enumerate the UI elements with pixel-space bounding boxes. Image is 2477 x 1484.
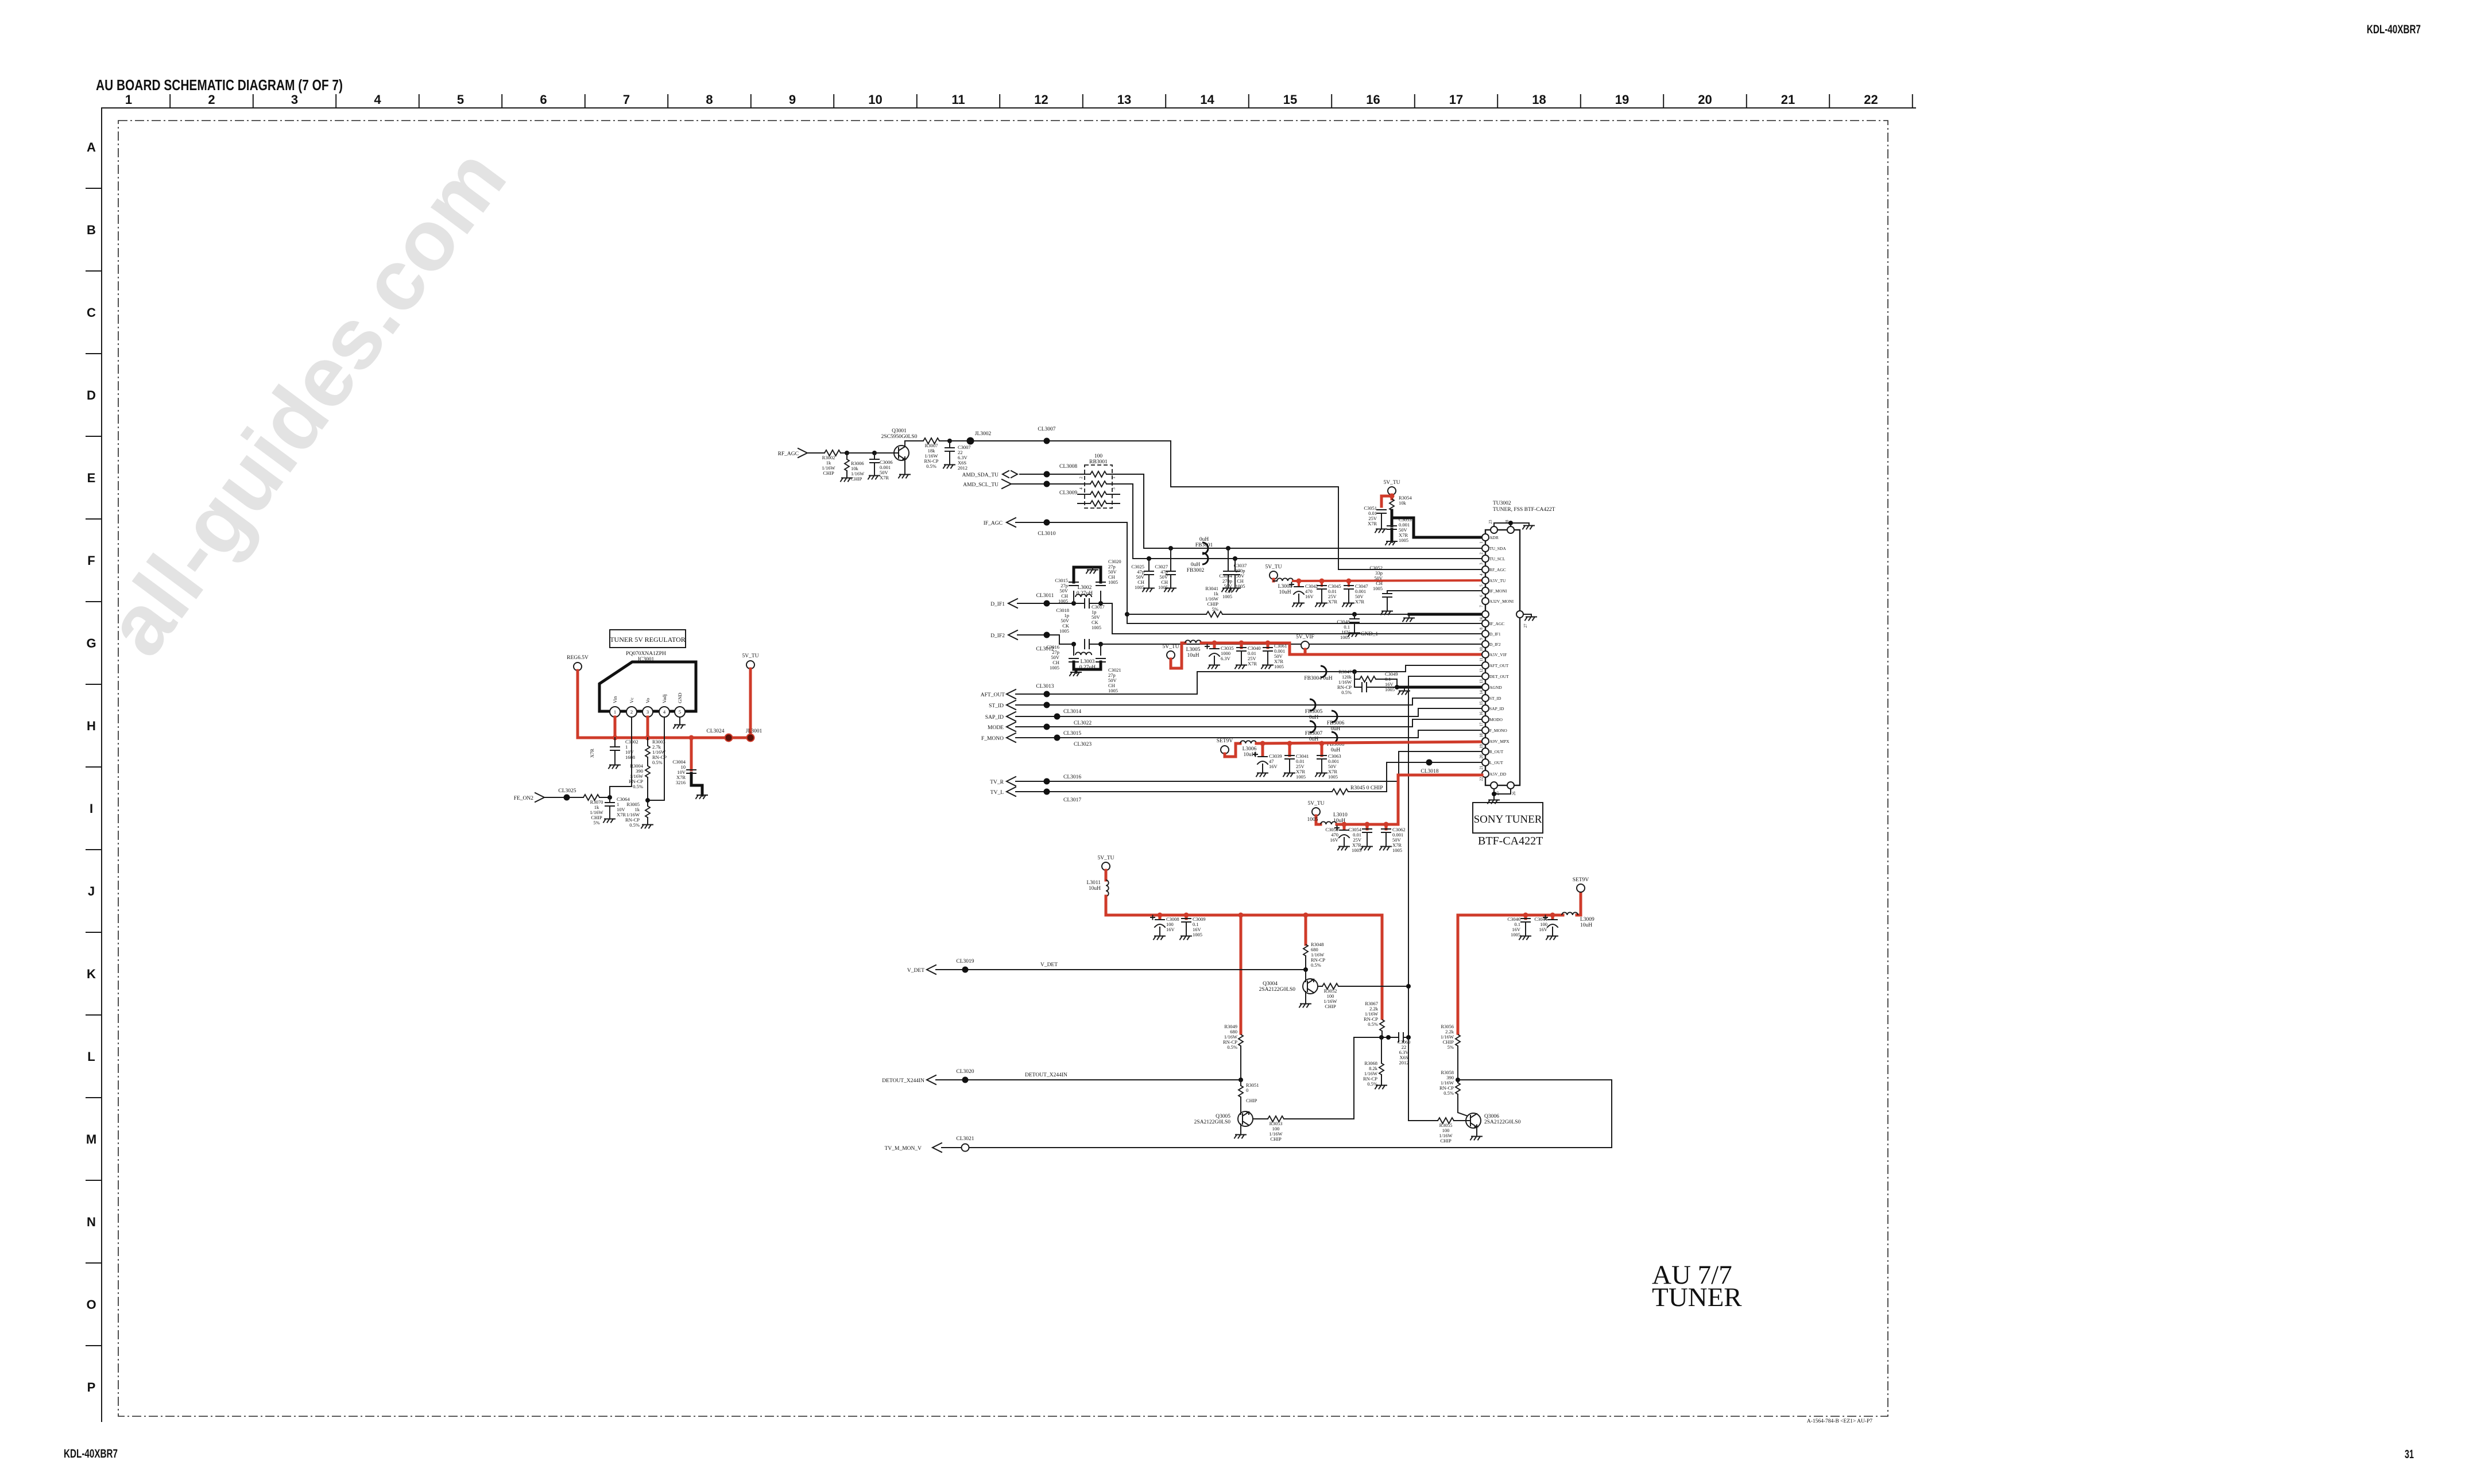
svg-text:3: 3 bbox=[1479, 563, 1484, 565]
svg-text:RF_AGC: RF_AGC bbox=[778, 451, 799, 457]
svg-text:CL3011: CL3011 bbox=[1036, 593, 1054, 599]
svg-text:0.5%: 0.5% bbox=[1368, 1021, 1378, 1027]
connector-link CL3014 bbox=[1044, 702, 1082, 715]
wire AFT_OUT jog to pin 12 bbox=[1197, 665, 1485, 694]
node D_IF2 left bbox=[1071, 642, 1076, 646]
svg-text:27: 27 bbox=[1523, 623, 1528, 628]
svg-text:11: 11 bbox=[1479, 657, 1484, 661]
resistor R3007 bbox=[923, 438, 950, 469]
node R3041 tap bbox=[1125, 612, 1129, 617]
svg-text:N: N bbox=[87, 1215, 96, 1229]
svg-text:TU_SCL: TU_SCL bbox=[1489, 556, 1505, 561]
connector-link CL3022 bbox=[1054, 714, 1092, 727]
RB3001 resistor row 4 bbox=[1078, 501, 1120, 506]
svg-text:5V_TU: 5V_TU bbox=[1307, 801, 1324, 807]
tuner bottom pins 25 26 with ground bbox=[1488, 782, 1516, 804]
capacitor C3039 bbox=[1253, 743, 1282, 777]
inductor L3006 bbox=[1240, 741, 1257, 758]
svg-text:0.5%: 0.5% bbox=[1367, 1081, 1377, 1087]
resistor R3041 wire to pin 24 bbox=[1127, 586, 1409, 617]
connector-link CL3011 bbox=[1036, 593, 1054, 607]
svg-text:5%: 5% bbox=[1448, 1044, 1454, 1050]
capacitor C3054 bbox=[1348, 824, 1372, 853]
svg-text:ST_ID: ST_ID bbox=[1489, 696, 1501, 701]
input AMD_SDA_TU bbox=[962, 471, 1085, 478]
svg-text:A5V_DD: A5V_DD bbox=[1489, 772, 1507, 777]
node C3034 on SCL line bbox=[1233, 556, 1237, 561]
connector-link CL3019 bbox=[956, 959, 974, 973]
output MODE bbox=[988, 719, 1485, 731]
svg-text:P: P bbox=[87, 1380, 96, 1394]
red node C3041 bbox=[1287, 741, 1292, 746]
svg-text:TU3002: TU3002 bbox=[1493, 501, 1511, 506]
svg-text:16: 16 bbox=[1366, 92, 1380, 107]
svg-text:31: 31 bbox=[2405, 1448, 2414, 1461]
capacitor C3047 bbox=[1342, 581, 1368, 607]
svg-text:DET_OUT: DET_OUT bbox=[1489, 674, 1509, 679]
red wire to L3005 bbox=[1171, 643, 1185, 668]
svg-text:1005: 1005 bbox=[1296, 774, 1306, 780]
svg-text:0.5%: 0.5% bbox=[926, 463, 936, 469]
thick wire into tuner pin 24 bbox=[1409, 613, 1485, 616]
svg-text:L_OUT: L_OUT bbox=[1489, 760, 1503, 765]
svg-text:6: 6 bbox=[1479, 595, 1484, 597]
svg-text:14: 14 bbox=[1479, 690, 1484, 695]
svg-text:0uH: 0uH bbox=[1191, 562, 1201, 568]
svg-text:10uH: 10uH bbox=[1089, 886, 1101, 892]
svg-text:X7R: X7R bbox=[589, 749, 595, 758]
svg-text:2: 2 bbox=[1479, 552, 1484, 555]
capacitor C3006 bbox=[868, 453, 893, 481]
svg-text:21: 21 bbox=[1479, 765, 1484, 770]
svg-text:1: 1 bbox=[614, 709, 616, 715]
svg-text:K: K bbox=[87, 967, 96, 981]
svg-text:V_DET: V_DET bbox=[1040, 962, 1058, 968]
svg-text:9: 9 bbox=[1479, 638, 1484, 640]
output ST_ID bbox=[989, 698, 1485, 710]
svg-text:A5V_VIF: A5V_VIF bbox=[1489, 652, 1507, 657]
tuner right pin 27 with ground bbox=[1516, 611, 1536, 628]
connector-link CL3023 bbox=[1054, 735, 1092, 748]
connector-link CL3018 bbox=[1421, 760, 1438, 775]
svg-text:15: 15 bbox=[1479, 701, 1484, 706]
terminal 5V_TU regulator output bbox=[742, 653, 758, 669]
svg-text:C: C bbox=[87, 305, 96, 320]
resistor R3056 bbox=[1441, 1024, 1460, 1080]
svg-text:CL3022: CL3022 bbox=[1074, 720, 1092, 726]
svg-text:1608: 1608 bbox=[625, 754, 635, 760]
svg-text:9: 9 bbox=[789, 92, 796, 107]
svg-text:12: 12 bbox=[1034, 92, 1048, 107]
svg-text:AMD_SDA_TU: AMD_SDA_TU bbox=[962, 472, 998, 478]
red node C3061 bbox=[1265, 641, 1271, 646]
capacitor C3002 bbox=[609, 738, 638, 769]
wire RF_AGC drive to tuner pin 4 bbox=[1171, 441, 1485, 569]
series capacitor C3018 on D_IF2 bbox=[1085, 640, 1101, 649]
output AFT_OUT bbox=[981, 689, 1197, 699]
capacitor C3027 bbox=[1155, 548, 1176, 592]
svg-text:15: 15 bbox=[1283, 92, 1297, 107]
wire to TV_M_MON_V return bbox=[942, 1080, 1612, 1148]
svg-text:SAP_ID: SAP_ID bbox=[985, 715, 1004, 720]
svg-text:10k: 10k bbox=[1399, 500, 1407, 506]
svg-text:0uH: 0uH bbox=[1331, 747, 1341, 753]
connector-link JL3001 bbox=[746, 729, 763, 742]
svg-text:2SA2122G0LS0: 2SA2122G0LS0 bbox=[1194, 1119, 1231, 1125]
svg-text:Vo: Vo bbox=[645, 698, 651, 703]
svg-text:23: 23 bbox=[1488, 520, 1493, 524]
connector-link CL3012 bbox=[1036, 632, 1054, 653]
node C3025 on SCL line bbox=[1147, 556, 1151, 561]
svg-text:AFT_OUT: AFT_OUT bbox=[981, 692, 1005, 698]
svg-text:CL3010: CL3010 bbox=[1038, 531, 1055, 537]
svg-text:TV_M_MON_V: TV_M_MON_V bbox=[885, 1146, 922, 1152]
row tick marks bbox=[86, 188, 102, 1346]
svg-text:5V_VIF: 5V_VIF bbox=[1296, 634, 1314, 640]
red node C3040 bbox=[1239, 641, 1244, 646]
svg-text:FB3007: FB3007 bbox=[1305, 731, 1323, 737]
connector-link CL3024 bbox=[706, 729, 732, 742]
svg-text:0.5%: 0.5% bbox=[629, 822, 640, 828]
svg-text:18: 18 bbox=[1479, 733, 1484, 738]
svg-text:16V: 16V bbox=[1269, 764, 1278, 769]
red node C3054 bbox=[1365, 822, 1370, 827]
svg-text:16V: 16V bbox=[1330, 837, 1339, 843]
svg-text:2SC5950G0LS0: 2SC5950G0LS0 bbox=[881, 434, 918, 440]
svg-text:0.5%: 0.5% bbox=[1341, 689, 1352, 695]
svg-text:AMD_SCL_TU: AMD_SCL_TU bbox=[963, 482, 998, 488]
svg-text:2SA2122G0LS0: 2SA2122G0LS0 bbox=[1259, 987, 1296, 993]
svg-text:L3006: L3006 bbox=[1243, 746, 1257, 752]
red node C3046 bbox=[1523, 913, 1528, 918]
ferrite bead FB3002 on SCL line bbox=[1187, 553, 1208, 574]
node D_IF2 right bbox=[1098, 642, 1103, 646]
svg-text:1: 1 bbox=[1479, 541, 1484, 544]
svg-text:0.5%: 0.5% bbox=[633, 784, 643, 789]
label box SONY TUNER bbox=[1473, 803, 1543, 833]
input AMD_SCL_TU bbox=[963, 479, 1085, 489]
svg-text:V_DET: V_DET bbox=[907, 968, 924, 974]
svg-text:5V_TU: 5V_TU bbox=[742, 653, 758, 659]
output TV_M_MON_V bbox=[885, 1143, 942, 1152]
svg-text:FB3002: FB3002 bbox=[1187, 568, 1205, 574]
svg-text:KDL-40XBR7: KDL-40XBR7 bbox=[64, 1447, 118, 1460]
svg-text:0.27uH: 0.27uH bbox=[1077, 591, 1093, 596]
connector-link CL3015 bbox=[1044, 724, 1082, 737]
svg-text:A9V_MPX: A9V_MPX bbox=[1489, 739, 1510, 744]
resistor R3005 bbox=[625, 800, 653, 828]
svg-text:1005: 1005 bbox=[1328, 774, 1338, 780]
column numbers 1-22 bbox=[125, 92, 1878, 107]
inductor L3010 bbox=[1321, 812, 1348, 824]
node R3067 bottom bbox=[1379, 1035, 1384, 1040]
inductor L3008 bbox=[1274, 578, 1293, 595]
ferrite bead FB3006 bbox=[1327, 711, 1345, 732]
capacitor C3042 bbox=[1290, 581, 1318, 607]
svg-text:CL3020: CL3020 bbox=[956, 1069, 974, 1075]
svg-text:20: 20 bbox=[1698, 92, 1712, 107]
svg-text:4: 4 bbox=[1479, 574, 1484, 576]
svg-text:TV_R: TV_R bbox=[990, 780, 1004, 785]
RB3001 resistor row 2 SCL bbox=[1079, 481, 1116, 490]
svg-text:MODE: MODE bbox=[988, 725, 1004, 731]
capacitor C3025 bbox=[1131, 559, 1154, 592]
svg-text:FB3004 0uH: FB3004 0uH bbox=[1304, 676, 1332, 681]
resistor R3004 bbox=[629, 757, 650, 800]
svg-text:16: 16 bbox=[1479, 711, 1484, 716]
ferrite bead FB3007 bbox=[1305, 721, 1323, 742]
svg-text:0: 0 bbox=[1246, 1087, 1248, 1093]
capacitor C3008 bbox=[1151, 915, 1179, 940]
ferrite bead FB3005 bbox=[1305, 699, 1323, 720]
svg-text:Q3005: Q3005 bbox=[1216, 1114, 1230, 1119]
inductor L3005 bbox=[1185, 640, 1201, 658]
capacitor C3062 bbox=[1380, 824, 1406, 853]
connector-link CL3010 bbox=[1038, 520, 1055, 537]
node C3048 bbox=[1352, 612, 1357, 617]
red wire to L3010 bbox=[1316, 816, 1321, 824]
svg-text:CL3009: CL3009 bbox=[1059, 490, 1077, 496]
wire pin4 Vadj to R3004-R3005 node bbox=[648, 717, 664, 800]
svg-text:6.3V: 6.3V bbox=[1221, 656, 1231, 661]
svg-text:L3005: L3005 bbox=[1186, 647, 1201, 653]
svg-text:ADR: ADR bbox=[1489, 535, 1499, 540]
connector-link CL3025 bbox=[558, 788, 576, 801]
net GND_1 bbox=[1348, 630, 1378, 637]
inductor L3009 bbox=[1562, 912, 1594, 928]
ground on AGND wire bbox=[1398, 688, 1410, 695]
svg-text:AGND: AGND bbox=[1489, 685, 1502, 690]
svg-text:5V_TU: 5V_TU bbox=[1265, 564, 1282, 570]
node C3064 junction bbox=[607, 795, 612, 800]
ground pin5 bbox=[674, 717, 685, 729]
svg-text:A-1564-784-B <EZ1> AU-P7: A-1564-784-B <EZ1> AU-P7 bbox=[1807, 1419, 1872, 1424]
svg-text:13: 13 bbox=[1479, 679, 1484, 684]
svg-text:0.5%: 0.5% bbox=[1443, 1090, 1454, 1096]
svg-text:8: 8 bbox=[1479, 627, 1484, 630]
red drop to R3067 bbox=[1381, 915, 1384, 1018]
svg-text:CL3024: CL3024 bbox=[706, 729, 724, 734]
capacitor C3064 bbox=[603, 796, 630, 823]
RB3001 resistor row 1 SDA bbox=[1079, 471, 1116, 479]
svg-text:0.5%: 0.5% bbox=[1311, 962, 1321, 968]
tuner left pins bbox=[1479, 534, 1514, 781]
resistor R3049 bbox=[1223, 1024, 1243, 1080]
capacitor C3061 bbox=[1261, 643, 1287, 669]
terminal 5V_TU for A5V_TU bbox=[1265, 564, 1282, 579]
svg-text:RF_AGC: RF_AGC bbox=[1489, 567, 1506, 572]
capacitor C3021 bbox=[1096, 658, 1121, 693]
svg-text:D: D bbox=[87, 388, 96, 402]
resistor R3051 bbox=[1238, 1080, 1259, 1111]
capacitor C3044 bbox=[1534, 915, 1558, 940]
svg-text:2012: 2012 bbox=[1399, 1060, 1409, 1065]
svg-text:F_MONO: F_MONO bbox=[1489, 728, 1507, 733]
svg-text:TUNER 5V REGULATOR: TUNER 5V REGULATOR bbox=[610, 636, 686, 644]
left ruler line bbox=[101, 108, 102, 1421]
svg-text:X7R: X7R bbox=[617, 812, 626, 817]
connector-link CL3008 bbox=[1044, 464, 1078, 478]
red node C3045 bbox=[1319, 579, 1325, 584]
red node C3047 bbox=[1346, 579, 1352, 584]
svg-text:1005: 1005 bbox=[1399, 537, 1408, 543]
thick ADR node wire to tuner pin 1 bbox=[1392, 510, 1485, 537]
thick bottom link with ground bbox=[1070, 662, 1101, 676]
series capacitor C3017 on D_IF1 bbox=[1085, 599, 1105, 630]
svg-text:3: 3 bbox=[291, 92, 298, 107]
svg-text:KDL-40XBR7: KDL-40XBR7 bbox=[2367, 23, 2421, 36]
svg-text:D_IF1: D_IF1 bbox=[990, 602, 1005, 607]
svg-text:1005: 1005 bbox=[1222, 594, 1232, 599]
svg-text:1: 1 bbox=[125, 92, 132, 107]
svg-text:2: 2 bbox=[630, 709, 633, 715]
output SAP_ID bbox=[985, 708, 1485, 721]
capacitor C3020 bbox=[1096, 559, 1121, 597]
svg-text:20: 20 bbox=[1479, 754, 1484, 759]
svg-text:1005: 1005 bbox=[1158, 584, 1168, 590]
terminal SET9V for A9V_MPX bbox=[1217, 738, 1233, 754]
capacitor C3045 bbox=[1315, 581, 1341, 607]
svg-text:CHIP: CHIP bbox=[823, 470, 834, 476]
IC U-IC3001 part labels bbox=[626, 651, 666, 662]
svg-text:CL3016: CL3016 bbox=[1063, 774, 1081, 780]
capacitor C3049 bbox=[1354, 671, 1398, 692]
red node C3063 bbox=[1319, 741, 1325, 746]
svg-text:IF_AGC: IF_AGC bbox=[984, 521, 1003, 526]
RB3001 resistor row 3 bbox=[1078, 491, 1120, 497]
svg-text:F_MONO: F_MONO bbox=[981, 736, 1004, 742]
svg-text:D_IF2: D_IF2 bbox=[990, 633, 1005, 639]
terminal 5V_VIF bbox=[1296, 634, 1314, 654]
svg-text:13: 13 bbox=[1117, 92, 1131, 107]
svg-text:16V: 16V bbox=[1166, 927, 1175, 932]
column tick marks bbox=[170, 95, 1913, 107]
node DETOUT bbox=[1238, 1078, 1243, 1082]
output V_DET bbox=[907, 962, 1306, 974]
svg-text:JL3002: JL3002 bbox=[975, 431, 992, 437]
capacitor C3060 bbox=[1398, 1033, 1411, 1065]
red power wire REG6.5V to bus bbox=[578, 671, 729, 738]
svg-text:CL3023: CL3023 bbox=[1074, 742, 1092, 747]
Q3001 collector wire bbox=[905, 441, 923, 447]
svg-text:PQ070XNA1ZPH: PQ070XNA1ZPH bbox=[626, 651, 666, 657]
capacitor C3052 bbox=[1369, 565, 1392, 615]
connector-link CL3021 bbox=[956, 1136, 974, 1152]
svg-text:12: 12 bbox=[1479, 668, 1484, 673]
resistor R3058 bbox=[1439, 1070, 1468, 1116]
transistor Q3005 bbox=[1194, 1111, 1253, 1138]
capacitor C3048 bbox=[1337, 614, 1359, 640]
transistor Q3004 bbox=[1259, 970, 1318, 1008]
svg-text:10: 10 bbox=[1479, 647, 1484, 652]
svg-text:1005: 1005 bbox=[1135, 584, 1144, 590]
capacitor C3041 bbox=[1283, 743, 1309, 780]
red node C3039 bbox=[1260, 741, 1265, 746]
svg-text:28: 28 bbox=[1505, 520, 1510, 524]
svg-text:J: J bbox=[88, 884, 95, 898]
transistor Q3006 bbox=[1466, 1113, 1521, 1140]
svg-text:TV_L: TV_L bbox=[990, 790, 1004, 796]
svg-text:MODO: MODO bbox=[1489, 717, 1503, 722]
inductor L3003 bbox=[1074, 644, 1101, 671]
wire IF_AGC to tuner pin 8 bbox=[1127, 522, 1485, 623]
resistor R3054 bbox=[1390, 495, 1412, 510]
svg-text:3: 3 bbox=[1112, 487, 1116, 490]
svg-text:I: I bbox=[90, 801, 93, 816]
svg-text:CL3007: CL3007 bbox=[1038, 427, 1055, 432]
svg-text:TU_SDA: TU_SDA bbox=[1489, 546, 1506, 551]
svg-text:5%: 5% bbox=[593, 820, 599, 826]
svg-text:5: 5 bbox=[679, 709, 681, 715]
output TV_L bbox=[990, 787, 1332, 796]
svg-text:CHIP: CHIP bbox=[851, 476, 862, 482]
svg-text:O: O bbox=[86, 1297, 96, 1312]
node C3060 left bbox=[1386, 1035, 1391, 1040]
capacitor C3051 bbox=[1364, 505, 1387, 533]
capacitor C3037 bbox=[1222, 548, 1247, 592]
svg-text:19: 19 bbox=[1615, 92, 1629, 107]
svg-text:3: 3 bbox=[647, 709, 649, 715]
svg-text:L3003: L3003 bbox=[1081, 659, 1095, 665]
red wire SET9V to L3006 bbox=[1225, 743, 1240, 757]
wire DET_OUT pin 13 to lower section bbox=[1408, 676, 1485, 1121]
node C3027 on SDA line bbox=[1168, 546, 1173, 551]
output F_MONO bbox=[981, 730, 1485, 742]
inductor L3002 bbox=[1074, 585, 1101, 603]
row letters A-P bbox=[86, 140, 96, 1394]
svg-text:1005: 1005 bbox=[1050, 665, 1059, 671]
resistor R3068 bbox=[1363, 1037, 1387, 1089]
svg-text:22: 22 bbox=[1864, 92, 1878, 107]
svg-text:FB3006: FB3006 bbox=[1327, 720, 1345, 726]
wire TU_SDA to tuner pin 2 bbox=[1112, 474, 1485, 548]
output D_IF1 bbox=[990, 599, 1085, 608]
svg-text:ST_ID: ST_ID bbox=[989, 703, 1004, 709]
svg-text:1: 1 bbox=[1112, 476, 1116, 479]
svg-text:11: 11 bbox=[951, 92, 965, 107]
node AGND bbox=[1395, 685, 1399, 689]
svg-text:1005: 1005 bbox=[1511, 932, 1520, 937]
red node C3042 bbox=[1296, 579, 1302, 584]
svg-text:Q3001: Q3001 bbox=[892, 428, 907, 434]
capacitor C3046 bbox=[1507, 915, 1531, 940]
svg-text:A32V_MONI: A32V_MONI bbox=[1489, 599, 1514, 604]
node V_DET Q3004 bbox=[1303, 967, 1308, 972]
IC3001 pins 1-5 bbox=[610, 693, 685, 717]
svg-text:16V: 16V bbox=[1305, 594, 1314, 599]
svg-text:L: L bbox=[87, 1049, 95, 1064]
svg-text:CL3008: CL3008 bbox=[1059, 464, 1077, 470]
svg-text:G: G bbox=[86, 636, 96, 650]
svg-text:DETOUT_X244IN: DETOUT_X244IN bbox=[1025, 1072, 1067, 1078]
svg-text:X7R: X7R bbox=[1355, 599, 1364, 605]
terminal 5V_TU for A5V_VIF bbox=[1162, 644, 1179, 659]
resistor R3003 bbox=[645, 738, 667, 765]
svg-text:RB3001: RB3001 bbox=[1089, 459, 1108, 465]
label box TUNER 5V REGULATOR bbox=[610, 630, 686, 648]
svg-text:1005: 1005 bbox=[1193, 932, 1202, 937]
svg-text:REG6.5V: REG6.5V bbox=[567, 655, 589, 661]
svg-text:Vadj: Vadj bbox=[661, 694, 667, 703]
svg-text:1005: 1005 bbox=[1059, 628, 1069, 634]
resistor R3048 bbox=[1303, 941, 1325, 970]
svg-text:8: 8 bbox=[706, 92, 713, 107]
svg-text:L3010: L3010 bbox=[1333, 812, 1348, 818]
svg-text:16V: 16V bbox=[1539, 927, 1548, 932]
capacitor C3016 bbox=[1046, 644, 1078, 671]
svg-text:2: 2 bbox=[208, 92, 215, 107]
svg-text:Vin: Vin bbox=[612, 696, 618, 703]
